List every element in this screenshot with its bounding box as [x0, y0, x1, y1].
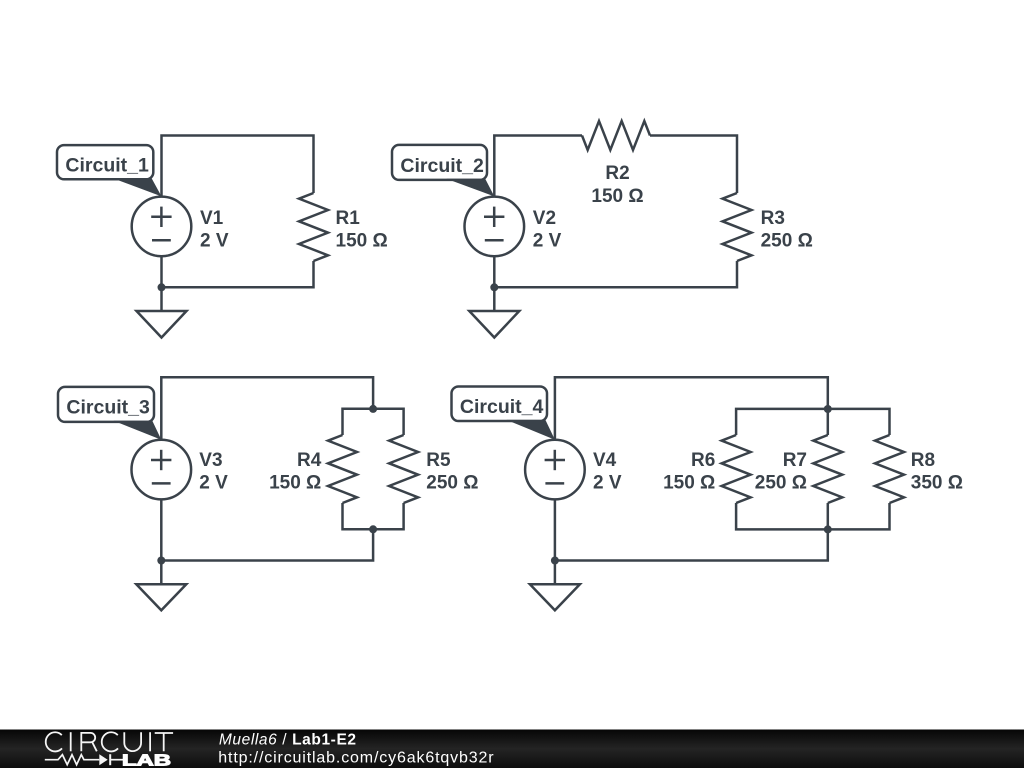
- svg-text:V3: V3: [199, 450, 222, 471]
- wire V4 bottom: [554, 498, 557, 585]
- svg-text:V2: V2: [533, 208, 556, 229]
- wire top rail circuit 2 left: [494, 136, 582, 197]
- voltage source V3: [132, 440, 192, 500]
- svg-text:150 Ω: 150 Ω: [336, 231, 388, 252]
- voltage source V1: [132, 197, 192, 257]
- wire parallel top bar circuit 4: [736, 409, 889, 435]
- resistor R5: [389, 435, 418, 503]
- wire top rail circuit 1: [162, 136, 314, 197]
- label R6 value: [663, 450, 715, 494]
- label Circuit_4: [452, 387, 555, 440]
- label R8 value: [911, 450, 963, 494]
- ground circuit 4: [530, 584, 580, 610]
- logo CIRCUIT lettering: [46, 732, 173, 751]
- wire R7 bottom lead: [827, 503, 830, 529]
- node circuit 2 ground junction: [490, 283, 498, 291]
- svg-text:R5: R5: [426, 450, 451, 471]
- svg-text:250 Ω: 250 Ω: [761, 231, 813, 252]
- svg-text:R3: R3: [761, 208, 785, 229]
- svg-text:2 V: 2 V: [593, 473, 622, 494]
- wire top rail circuit 2 right: [650, 136, 737, 194]
- wire R7 top lead: [827, 409, 830, 435]
- label R5 value: [426, 450, 478, 494]
- resistor R6: [722, 435, 751, 503]
- voltage source V4: [525, 440, 585, 500]
- node circuit 1 ground junction: [158, 283, 166, 291]
- resistor R3: [723, 193, 752, 261]
- svg-text:Circuit_1: Circuit_1: [65, 155, 149, 177]
- wire R1 bottom lead: [162, 261, 314, 287]
- label Circuit_1: [57, 145, 162, 196]
- svg-text:150 Ω: 150 Ω: [591, 186, 643, 207]
- wire parallel bottom bar circuit 4: [736, 503, 889, 529]
- svg-text:LAB: LAB: [122, 753, 171, 768]
- resistor R8: [875, 435, 904, 503]
- label V3 value: [199, 450, 228, 494]
- wire parallel bottom bar circuit 3: [343, 503, 404, 529]
- wire V1 bottom: [160, 256, 163, 311]
- resistor R7: [813, 435, 842, 503]
- svg-text:R8: R8: [911, 450, 935, 471]
- svg-text:Circuit_2: Circuit_2: [400, 155, 484, 177]
- node circuit 4 top junction: [824, 405, 832, 413]
- svg-text:Circuit_4: Circuit_4: [460, 396, 544, 418]
- footer bar: [0, 730, 1024, 768]
- svg-text:150 Ω: 150 Ω: [663, 473, 715, 494]
- wire bottom rail circuit 3: [161, 529, 373, 560]
- svg-text:R1: R1: [336, 208, 361, 229]
- svg-text:2 V: 2 V: [533, 231, 562, 252]
- svg-text:R4: R4: [297, 450, 322, 471]
- resistor R2: [582, 121, 650, 150]
- wire V3 bottom: [160, 498, 163, 585]
- label Circuit_2: [392, 145, 494, 197]
- resistor R4: [328, 435, 357, 503]
- svg-text:250 Ω: 250 Ω: [426, 473, 478, 494]
- svg-text:150 Ω: 150 Ω: [269, 473, 321, 494]
- wire bottom rail circuit 4: [555, 529, 828, 560]
- voltage source V2: [465, 197, 525, 257]
- node circuit 3 ground junction: [157, 557, 165, 565]
- svg-text:R7: R7: [783, 450, 807, 471]
- label V2 value: [533, 208, 562, 252]
- label R4 value: [269, 450, 322, 494]
- label R2 value: [591, 163, 643, 207]
- node circuit 4 bottom junction: [824, 525, 832, 533]
- node circuit 3 top junction: [369, 405, 377, 413]
- label R1 value: [336, 208, 388, 252]
- svg-text:350 Ω: 350 Ω: [911, 473, 963, 494]
- svg-text:http://circuitlab.com/cy6ak6tq: http://circuitlab.com/cy6ak6tqvb32r: [218, 750, 494, 767]
- label R3 value: [761, 208, 813, 252]
- svg-text:2 V: 2 V: [199, 473, 228, 494]
- ground circuit 1: [137, 311, 187, 338]
- label Circuit_3: [58, 387, 161, 440]
- svg-text:R2: R2: [605, 163, 629, 184]
- svg-text:V4: V4: [593, 450, 617, 471]
- resistor R1: [299, 193, 328, 261]
- node circuit 3 bottom junction: [369, 525, 377, 533]
- label V4 value: [593, 450, 622, 494]
- svg-text:Circuit_3: Circuit_3: [66, 397, 150, 419]
- wire V2 bottom: [493, 256, 496, 311]
- logo resistor-diode art: [45, 754, 123, 765]
- svg-text:2 V: 2 V: [200, 231, 229, 252]
- wire parallel top bar circuit 3: [343, 409, 404, 435]
- label V1 value: [200, 208, 229, 252]
- ground circuit 2: [469, 311, 519, 338]
- node circuit 4 ground junction: [551, 557, 559, 565]
- svg-text:250 Ω: 250 Ω: [755, 473, 807, 494]
- wire top rail circuit 3: [161, 377, 373, 440]
- ground circuit 3: [136, 584, 186, 610]
- svg-text:R6: R6: [691, 450, 715, 471]
- wire bottom rail circuit 2: [494, 261, 737, 287]
- label R7 value: [755, 450, 807, 494]
- svg-text:V1: V1: [200, 208, 224, 229]
- wire top rail circuit 4: [555, 377, 828, 440]
- svg-text:Muella6 / Lab1-E2: Muella6 / Lab1-E2: [219, 731, 357, 748]
